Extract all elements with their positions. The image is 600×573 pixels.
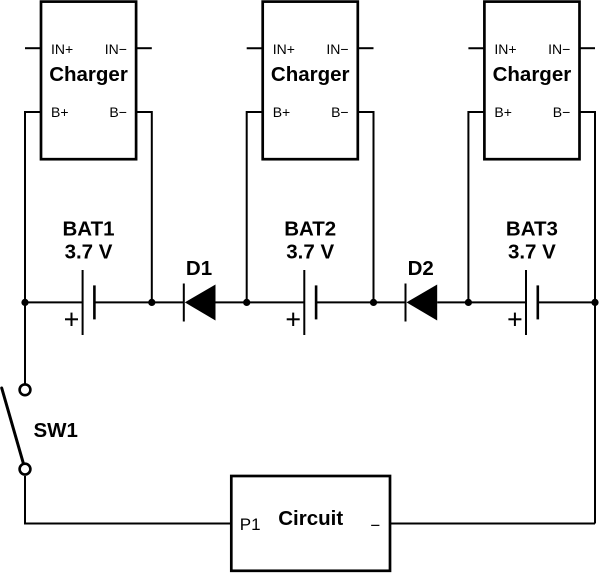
wire U3 IN- stub: [580, 47, 596, 49]
node bus-U1-B+: [21, 299, 28, 306]
svg-text:D1: D1: [186, 257, 212, 280]
svg-text:Charger: Charger: [49, 63, 128, 86]
svg-text:BAT2: BAT2: [284, 217, 336, 240]
wire bus segment 1: [25, 301, 83, 303]
svg-text:B+: B+: [494, 104, 512, 120]
svg-text:IN−: IN−: [326, 41, 348, 57]
svg-text:BAT1: BAT1: [62, 217, 114, 240]
svg-text:3.7 V: 3.7 V: [65, 240, 113, 263]
circuit block: [231, 476, 390, 571]
wire U2 IN+ stub: [247, 47, 263, 49]
wire U3 B+ to bus: [468, 112, 484, 302]
svg-text:D2: D2: [408, 257, 434, 280]
charger U1: [41, 2, 136, 160]
svg-text:3.7 V: 3.7 V: [508, 240, 556, 263]
svg-text:IN+: IN+: [273, 41, 295, 57]
svg-text:−: −: [370, 516, 380, 535]
wire U1 IN+ stub: [25, 47, 41, 49]
svg-text:IN−: IN−: [105, 41, 127, 57]
battery BAT2: [287, 270, 316, 335]
svg-text:Charger: Charger: [493, 63, 572, 86]
svg-text:B+: B+: [51, 104, 69, 120]
wire bus segment 3: [216, 301, 305, 303]
charger U3: [484, 2, 579, 160]
wire bus segment 2: [94, 301, 183, 303]
wire U3 IN+ stub: [468, 47, 484, 49]
diode D1: [184, 284, 216, 322]
wire U1 B+ to bus: [25, 112, 41, 302]
wire bus segment 6: [538, 301, 595, 303]
svg-text:3.7 V: 3.7 V: [286, 240, 334, 263]
node bus-U1-B-: [148, 299, 155, 306]
node bus-U3-B-: [591, 299, 598, 306]
node bus-U2-B+: [243, 299, 250, 306]
svg-text:B+: B+: [273, 104, 291, 120]
switch SW1: [2, 384, 31, 474]
wire U2 B- to bus: [358, 112, 374, 302]
svg-text:Circuit: Circuit: [278, 507, 343, 530]
svg-text:B−: B−: [553, 104, 571, 120]
charger U2: [263, 2, 358, 160]
svg-text:IN+: IN+: [494, 41, 516, 57]
svg-text:B−: B−: [109, 104, 127, 120]
label BAT2: [284, 217, 336, 263]
wire U3 B- to bus and down to circuit: [580, 112, 596, 524]
svg-text:B−: B−: [331, 104, 349, 120]
wire bottom left to circuit: [24, 523, 231, 525]
wire bus segment 4: [316, 301, 405, 303]
wire bus to SW1: [24, 302, 26, 383]
label BAT1: [62, 217, 114, 263]
svg-text:IN+: IN+: [51, 41, 73, 57]
svg-text:Charger: Charger: [271, 63, 350, 86]
wire bus segment 5: [437, 301, 526, 303]
svg-text:IN−: IN−: [548, 41, 570, 57]
wire U1 B- to bus: [136, 112, 152, 302]
battery BAT3: [508, 270, 537, 335]
svg-text:BAT3: BAT3: [506, 217, 558, 240]
diode D2: [406, 284, 438, 322]
svg-text:SW1: SW1: [34, 419, 78, 442]
wire U1 IN- stub: [136, 47, 152, 49]
wire SW1 to bottom: [24, 476, 26, 524]
label BAT3: [506, 217, 558, 263]
wire U2 B+ to bus: [247, 112, 263, 302]
wire U2 IN- stub: [358, 47, 374, 49]
wire circuit right: [390, 523, 595, 525]
battery BAT1: [65, 270, 94, 335]
node bus-U2-B-: [370, 299, 377, 306]
node bus-U3-B+: [465, 299, 472, 306]
svg-text:P1: P1: [240, 515, 261, 534]
